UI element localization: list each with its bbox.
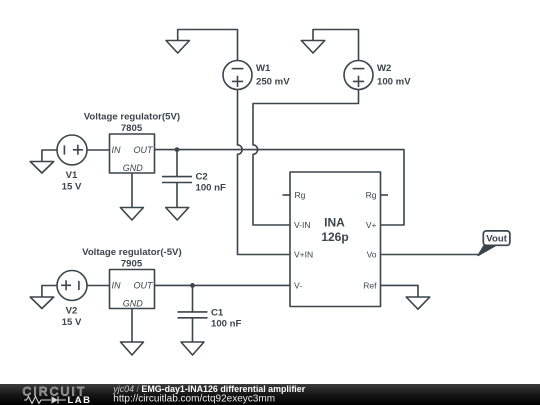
svg-text:Ref: Ref — [363, 281, 377, 291]
svg-text:Rg: Rg — [366, 190, 377, 200]
ground (for V2) — [30, 286, 57, 309]
op-amp U1 INA126p instrumentation amplifier — [290, 172, 381, 307]
label C2 100 nF — [196, 172, 227, 194]
ground (for C1) — [181, 342, 204, 355]
pin stub Rg right — [381, 194, 389, 196]
svg-text:OUT: OUT — [134, 281, 155, 291]
svg-text:GND: GND — [123, 163, 144, 173]
wire V1 to 7805 IN — [87, 149, 110, 151]
wire W2 to V-IN (with hop over +5V rail) — [253, 90, 359, 226]
voltage source V2 — [57, 271, 87, 301]
svg-text:C2: C2 — [196, 172, 208, 183]
voltage source W1 — [223, 61, 252, 90]
label V1 15 V — [62, 170, 82, 193]
footer bar — [0, 384, 540, 405]
wire INA Ref to ground — [381, 285, 419, 297]
voltage source W2 — [344, 61, 373, 90]
wire INA Vo to Vout flag — [381, 254, 479, 256]
svg-text:C1: C1 — [211, 307, 224, 318]
wire V2 to 7905 IN — [87, 285, 110, 287]
wire +5V rail: 7805 OUT to INA V+ — [155, 150, 405, 225]
svg-text:100 nF: 100 nF — [196, 182, 227, 193]
pin stub Rg left — [283, 194, 291, 196]
ground (for V1) — [30, 150, 57, 173]
svg-text:INA: INA — [324, 216, 345, 230]
voltage source V1 — [57, 135, 87, 165]
ground (for C2) — [166, 208, 189, 221]
wire W1 to V+IN (with hop over +5V rail) — [238, 90, 291, 255]
svg-text:100 mV: 100 mV — [377, 77, 411, 88]
svg-text:W1: W1 — [256, 63, 271, 74]
voltage regulator 7905 — [110, 270, 155, 309]
footer caption text — [112, 384, 305, 404]
svg-text:V1: V1 — [66, 170, 78, 181]
label Voltage regulator(5V) 7805 — [84, 111, 180, 173]
label W2 100 mV — [377, 63, 411, 88]
label C1 100 nF — [211, 307, 242, 329]
svg-text:V+IN: V+IN — [294, 250, 313, 260]
svg-text:15 V: 15 V — [62, 182, 82, 193]
label Voltage regulator(-5V) 7905 — [82, 247, 182, 308]
ground (top, for W1) — [166, 30, 238, 61]
capacitor C2 — [162, 150, 192, 208]
svg-text:LAB: LAB — [68, 395, 92, 405]
svg-text:Rg: Rg — [295, 190, 306, 200]
node flag Vout — [478, 231, 510, 255]
node junction at C1 — [190, 283, 195, 288]
ground (for 7905 GND pin) — [121, 309, 144, 356]
logo CIRCUIT LAB — [23, 384, 92, 405]
svg-text:Voltage regulator(-5V): Voltage regulator(-5V) — [82, 247, 182, 258]
capacitor C1 — [178, 285, 208, 342]
svg-text:15 V: 15 V — [62, 317, 82, 328]
svg-text:7805: 7805 — [121, 123, 143, 134]
label W1 250 mV — [256, 63, 290, 88]
svg-text:126p: 126p — [321, 230, 348, 244]
svg-text:V-IN: V-IN — [294, 220, 311, 230]
svg-text:V2: V2 — [66, 306, 78, 317]
svg-text:V+: V+ — [366, 220, 377, 230]
svg-text:Vo: Vo — [367, 250, 377, 260]
wire 7905 OUT to INA V- — [155, 284, 291, 286]
svg-text:W2: W2 — [377, 63, 391, 74]
svg-text:7905: 7905 — [121, 258, 143, 269]
ground (for Ref) — [406, 297, 430, 309]
svg-text:GND: GND — [123, 298, 144, 308]
ground (for 7805 GND pin) — [120, 173, 143, 220]
svg-text:IN: IN — [112, 145, 122, 155]
node junction at C2 — [175, 147, 180, 152]
label V2 15 V — [62, 306, 82, 329]
svg-text:250 mV: 250 mV — [256, 77, 290, 88]
ground (top, for W2) — [301, 30, 358, 61]
svg-text:Voltage regulator(5V): Voltage regulator(5V) — [84, 111, 180, 122]
svg-text:OUT: OUT — [134, 145, 155, 155]
svg-text:100 nF: 100 nF — [211, 319, 242, 330]
label INA 126p and pin names — [294, 190, 377, 291]
svg-text:V-: V- — [294, 281, 302, 291]
svg-text:IN: IN — [112, 281, 122, 291]
voltage regulator 7805 — [110, 134, 155, 173]
svg-text:http://circuitlab.com/ctq92exe: http://circuitlab.com/ctq92exeyc3mm — [113, 393, 275, 404]
svg-text:Vout: Vout — [486, 234, 507, 245]
